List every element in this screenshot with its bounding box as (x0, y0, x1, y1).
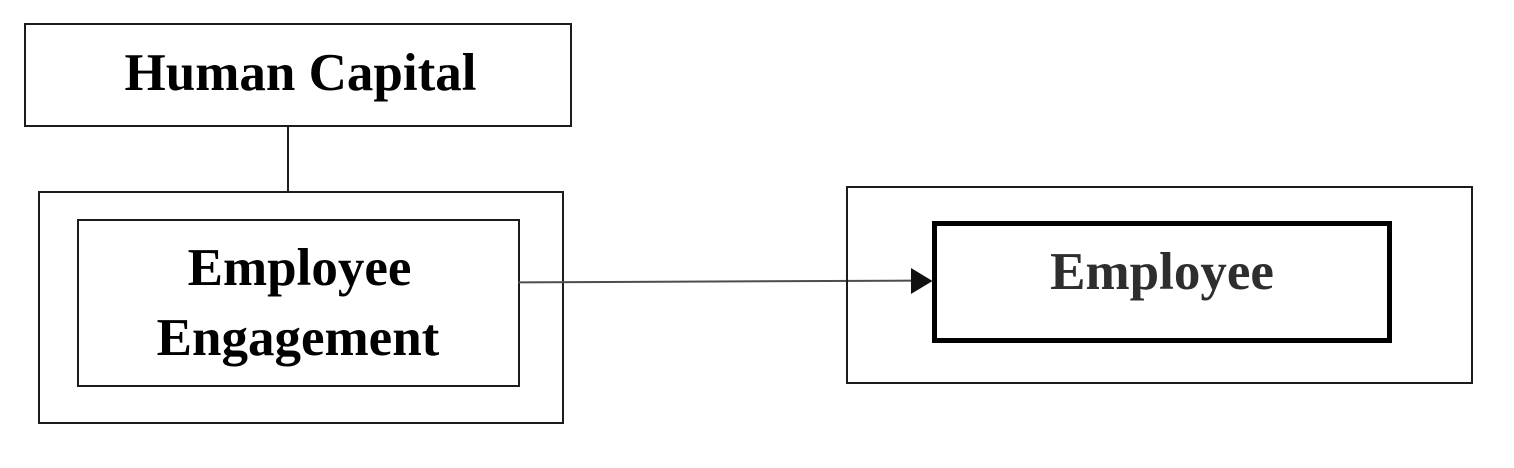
label: Employee Engagement (77, 233, 519, 373)
arrowhead (911, 268, 933, 294)
box: thick Employee (932, 221, 1392, 343)
wire: vertical connector (287, 125, 289, 192)
arrow shaft (518, 281, 914, 283)
label: Employee (932, 221, 1392, 343)
box: outer group (Employee Engagement) (38, 191, 564, 424)
label: Human Capital (24, 23, 571, 127)
box: inner Employee Engagement (77, 219, 520, 387)
wire: arrow from Employee Engagement to Employee (518, 258, 934, 304)
box: right outer group (846, 186, 1473, 384)
box: Human Capital (24, 23, 572, 127)
